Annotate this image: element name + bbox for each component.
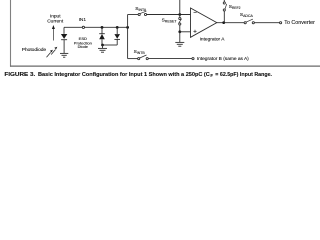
svg-text:Integrator A: Integrator A [200,36,226,42]
figure border left edge [10,0,12,67]
switch S_REF2 (vertical, cropped at top) [223,0,226,23]
ground (op-amp + input) [175,42,184,46]
junction output node [222,21,225,24]
switch S_INTB [138,55,149,60]
switch S_INTA [138,11,146,15]
svg-text:= 62.5pF) Input Range.: = 62.5pF) Input Range. [215,72,272,78]
switch S_ADCA [244,19,254,24]
ESD diode D2 (cathode up) [99,27,105,45]
ESD diode D3 (cathode down) [114,27,120,45]
junction feedback node [178,13,181,16]
wire: main input node IN1 horizontal [64,26,128,28]
photodiode light arrows [47,50,56,58]
svg-text:Photodiode: Photodiode [22,47,47,53]
svg-text:Integrator B (same as A): Integrator B (same as A) [197,56,249,62]
junction ESD diode 2 [116,26,119,29]
terminal circle Integrator B [192,58,194,60]
wire: to op-amp + input [180,31,191,33]
junction noninverting node [178,30,181,33]
junction at ESD ground [101,44,104,47]
input current arrow [52,28,54,41]
wire: S_INTA to op-amp inverting input [147,14,191,16]
terminal circle To Converter [280,22,282,24]
wire: bottom branch corner to S_INTB [128,58,138,60]
ground (ESD diodes) [98,48,107,52]
junction ESD diode 1 [101,26,104,29]
wire: down to ground [179,32,181,42]
wire: riser to integrator input [127,15,129,59]
wire: feedback riser to C_F (cropped at top) [179,0,181,15]
junction main node to branches [126,26,129,29]
ground (photodiode) [60,53,68,57]
wire: S_INTB to integrator B terminal [148,58,192,60]
svg-text:FIGURE 3.: FIGURE 3. [4,72,35,78]
wire: top branch to S_INTA [128,14,139,16]
svg-text:F: F [210,73,213,78]
wire: photodiode drop [63,27,65,34]
op-amp U1 Integrator A [191,8,217,37]
wire: op-amp output [217,22,244,24]
wire: to converter [254,22,279,24]
svg-text:Current: Current [47,19,64,25]
node IN1 terminal circle [82,26,84,28]
svg-text:IN1: IN1 [79,17,87,23]
switch S_RESET (vertical) [179,15,182,32]
wire joining ESD diodes to ground [103,44,118,46]
figure border bottom edge [10,65,320,67]
svg-text:Basic Integrator Configuration: Basic Integrator Configuration for Input… [38,72,210,78]
svg-text:To Converter: To Converter [284,20,315,26]
svg-text:Diode: Diode [78,44,89,49]
photodiode D1 [61,34,67,53]
